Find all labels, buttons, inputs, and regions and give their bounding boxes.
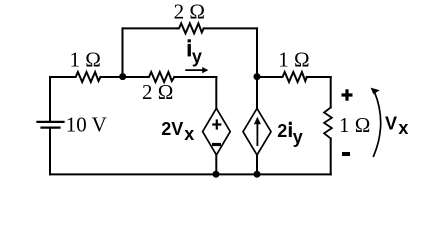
svg-text:x: x: [184, 124, 194, 144]
wire right vertical lower: [330, 139, 332, 175]
voltage source V1 10V battery long plate: [38, 121, 64, 123]
wire 2Vx bottom to bottom rail: [215, 155, 217, 175]
wire corner down to 2Vx source top: [215, 77, 217, 108]
resistor R1 1 ohm top-left zigzag: [74, 72, 101, 82]
plus sign inside 2Vx: [212, 119, 221, 129]
resistor R4 1 ohm top-right zigzag: [281, 72, 307, 82]
svg-text:2 Ω: 2 Ω: [142, 80, 173, 104]
label 2Vx dependent source: [161, 119, 194, 144]
wire node B to R4: [257, 76, 281, 78]
voltage reference arc for Vx: [371, 88, 381, 157]
bottom node dot under 2iy: [254, 171, 261, 178]
minus sign inside 2Vx: [212, 143, 221, 146]
label 2iy dependent source: [277, 121, 302, 147]
node A junction dot: [119, 73, 126, 80]
svg-text:10 V: 10 V: [66, 113, 107, 137]
plus sign of Vx at right branch: [342, 89, 353, 100]
wire bottom rail: [50, 173, 331, 175]
current arrow iy above middle branch: [185, 67, 208, 73]
wire top branch right segment: [204, 27, 257, 29]
svg-text:1 Ω: 1 Ω: [70, 47, 101, 71]
wire top branch down to node B and to 2iy source: [256, 28, 258, 108]
label iy current name: [188, 39, 202, 66]
resistor R2 2 ohm top zigzag: [177, 23, 204, 33]
svg-text:V: V: [385, 113, 397, 133]
node B junction dot: [254, 73, 261, 80]
wire R1 to node A: [101, 76, 123, 78]
wire left vertical lower: [49, 128, 51, 175]
wire left vertical upper: [49, 77, 51, 122]
wire node A up to top branch: [122, 28, 124, 77]
wire node A to R3: [123, 76, 148, 78]
label Vx voltage name: [385, 113, 408, 138]
minus sign of Vx at right branch: [342, 152, 350, 156]
svg-text:x: x: [398, 118, 408, 138]
current arrow inside 2iy: [254, 117, 261, 146]
bottom node dot under 2Vx: [213, 171, 220, 178]
svg-text:2 Ω: 2 Ω: [174, 0, 205, 24]
wire 2iy bottom to bottom rail: [256, 155, 258, 174]
wire R3 to corner above 2Vx: [174, 76, 216, 78]
dependent source F1 2iy diamond: [243, 108, 271, 155]
svg-text:y: y: [293, 127, 303, 147]
wire R4 to right top corner: [307, 76, 331, 78]
resistor R5 1 ohm right vertical zigzag: [324, 108, 332, 139]
svg-text:2V: 2V: [161, 119, 183, 139]
voltage source V1 10V battery short plate: [42, 126, 60, 128]
svg-text:1 Ω: 1 Ω: [339, 113, 370, 137]
svg-text:2: 2: [277, 121, 287, 141]
dependent source E1 2Vx diamond: [203, 108, 231, 155]
wire right vertical upper: [330, 77, 332, 108]
wire top branch left segment: [123, 27, 178, 29]
svg-text:1 Ω: 1 Ω: [278, 47, 309, 71]
svg-text:y: y: [192, 47, 202, 67]
wire from left top corner to R1: [50, 76, 74, 78]
resistor R3 2 ohm middle zigzag: [147, 72, 174, 82]
